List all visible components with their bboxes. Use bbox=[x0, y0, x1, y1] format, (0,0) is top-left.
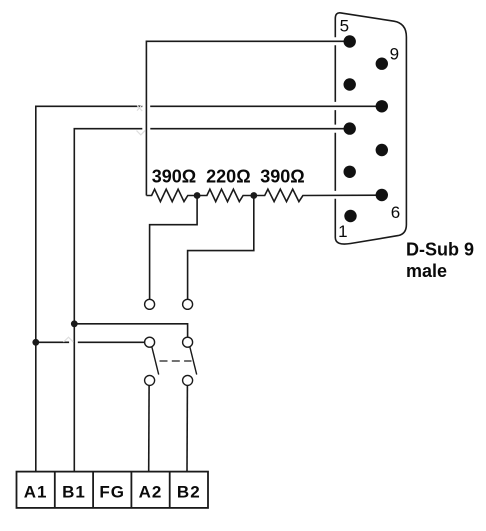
resistor R3 390 ohm zigzag, wire continues to pin 6 bbox=[254, 189, 382, 201]
node junction J2 bbox=[250, 192, 257, 199]
wire from J2 down-left to switch top contact S1b bbox=[188, 196, 254, 300]
pin 6 bbox=[376, 189, 388, 201]
wire from W2 junction to switch common S2b bbox=[74, 324, 187, 337]
switch bottom contact circle S3b bbox=[183, 375, 193, 385]
pin 5 bbox=[344, 35, 356, 47]
resistor R2 220 ohm zigzag bbox=[197, 189, 254, 201]
svg-text:9: 9 bbox=[390, 44, 399, 63]
switch top contact circle S1a bbox=[145, 299, 155, 309]
pin 4 bbox=[344, 78, 356, 90]
node junction J1 bbox=[194, 192, 201, 199]
pin 1 bbox=[344, 210, 356, 222]
switch common circle S2a bbox=[145, 337, 155, 347]
terminal block outline bbox=[17, 472, 209, 508]
node junction on W1 bbox=[32, 339, 39, 346]
pin 9 bbox=[376, 58, 388, 70]
node junction on W2 bbox=[71, 320, 78, 327]
faint crossover ghost on W1-S2a wire bbox=[64, 337, 74, 342]
switch arm pole A bbox=[152, 347, 159, 375]
switch top contact circle S1b bbox=[183, 299, 193, 309]
terminal divider 4 bbox=[169, 472, 171, 508]
switch arm pole B bbox=[190, 347, 197, 375]
wire from W1 junction to switch common S2a (gap crossing W2) bbox=[36, 341, 69, 343]
gang link dashed line bbox=[160, 360, 192, 362]
faint crossover ghost on H3 bbox=[137, 130, 146, 135]
svg-text:390Ω: 390Ω bbox=[260, 167, 304, 187]
resistor R1 390 ohm zigzag bbox=[146, 189, 197, 201]
svg-text:1: 1 bbox=[338, 222, 347, 241]
terminal divider 3 bbox=[130, 472, 132, 508]
svg-text:D-Sub 9: D-Sub 9 bbox=[406, 239, 474, 259]
svg-text:B2: B2 bbox=[177, 482, 201, 501]
wire H3+W2 from pin 3 left then down to terminal B1 (with crossover gap at W3) bbox=[150, 128, 349, 130]
pin 2 bbox=[344, 166, 356, 178]
switch bottom contact circle S3a bbox=[145, 375, 155, 385]
pin 8 bbox=[376, 100, 388, 112]
wire S3b down to terminal B2 bbox=[186, 385, 188, 471]
svg-text:B1: B1 bbox=[62, 482, 86, 501]
wire W3+H1 from resistor chain left end up to pin 5 bbox=[146, 41, 349, 195]
svg-text:5: 5 bbox=[340, 17, 349, 36]
wire from J1 down-left to switch top contact S1a bbox=[150, 196, 198, 300]
D-Sub 9 connector outline bbox=[335, 13, 406, 244]
svg-text:male: male bbox=[406, 261, 447, 281]
svg-text:6: 6 bbox=[391, 203, 400, 222]
wire S3a down to terminal A2 bbox=[148, 385, 150, 471]
pin 3 bbox=[344, 122, 356, 134]
terminal divider 1 bbox=[54, 472, 56, 508]
svg-text:220Ω: 220Ω bbox=[206, 167, 250, 187]
svg-text:A1: A1 bbox=[24, 482, 48, 501]
terminal divider 2 bbox=[92, 472, 94, 508]
switch common circle S2b bbox=[183, 337, 193, 347]
svg-text:A2: A2 bbox=[139, 482, 163, 501]
svg-text:FG: FG bbox=[99, 482, 125, 501]
pin 7 bbox=[376, 144, 388, 156]
svg-text:390Ω: 390Ω bbox=[152, 167, 196, 187]
wire H2+W1 from pin 8 left then down to terminal A1 (with crossover gap at W3) bbox=[150, 105, 382, 107]
faint crossover ghost on H2 bbox=[137, 105, 142, 111]
